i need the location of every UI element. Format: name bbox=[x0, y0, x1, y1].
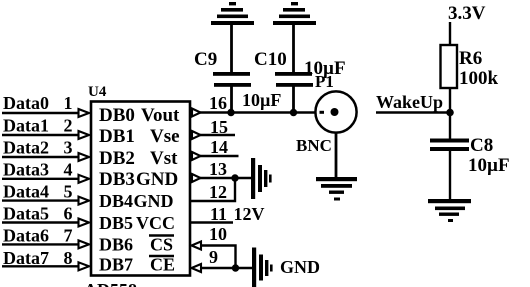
svg-text:8: 8 bbox=[64, 248, 73, 268]
svg-text:DB3: DB3 bbox=[99, 169, 135, 190]
svg-text:AD558: AD558 bbox=[84, 280, 137, 287]
wire U4 pin 11 VCC stub bbox=[191, 221, 233, 223]
svg-text:CS: CS bbox=[150, 235, 173, 255]
svg-text:Data4: Data4 bbox=[3, 182, 49, 202]
svg-text:100k: 100k bbox=[459, 68, 499, 89]
pin 15 output arrow bbox=[192, 131, 201, 139]
svg-text:3.3V: 3.3V bbox=[448, 3, 486, 24]
wire U4 pin 15 Vse stub bbox=[200, 134, 235, 137]
wire R6 to WakeUp node bbox=[449, 88, 451, 139]
ground symbol right of pins 13/12 (rotated) bbox=[251, 158, 272, 199]
svg-text:DB5: DB5 bbox=[99, 213, 133, 233]
svg-text:7: 7 bbox=[64, 226, 73, 246]
svg-text:Vst: Vst bbox=[150, 148, 178, 169]
svg-text:10: 10 bbox=[209, 224, 227, 244]
svg-text:Vse: Vse bbox=[150, 126, 180, 147]
svg-text:Data1: Data1 bbox=[3, 116, 49, 136]
junction dot WakeUp/R6/C8 bbox=[446, 109, 454, 117]
svg-text:WakeUp: WakeUp bbox=[376, 92, 443, 112]
wire Data4 to U4 pin 5 bbox=[2, 199, 80, 201]
svg-text:C9: C9 bbox=[194, 49, 217, 70]
BNC center pin dot bbox=[331, 108, 339, 116]
svg-text:2: 2 bbox=[64, 116, 73, 136]
svg-text:9: 9 bbox=[209, 247, 218, 267]
svg-text:C8: C8 bbox=[470, 135, 493, 156]
svg-text:12: 12 bbox=[209, 182, 227, 202]
svg-text:CE: CE bbox=[150, 255, 175, 275]
junction dot C10/Vout bbox=[290, 109, 297, 116]
wire C9 bottom to Vout net bbox=[230, 86, 233, 112]
wire Data6 to U4 pin 7 bbox=[2, 243, 80, 245]
capacitor C9 bbox=[213, 72, 251, 87]
ground symbol below BNC bbox=[316, 177, 357, 201]
svg-text:DB4: DB4 bbox=[99, 191, 133, 211]
svg-text:Data7: Data7 bbox=[3, 248, 49, 268]
pin 8 input arrow bbox=[79, 262, 90, 270]
pin 3 input arrow bbox=[79, 153, 90, 161]
pin 7 input arrow bbox=[79, 240, 90, 248]
wire WakeUp bbox=[376, 111, 450, 113]
wire Data1 to U4 pin 2 bbox=[2, 134, 80, 136]
svg-text:10µF: 10µF bbox=[242, 90, 281, 110]
wire ground to C10 top bbox=[292, 25, 295, 73]
capacitor C10 bbox=[275, 72, 313, 87]
wire U4 pin 10 CS to pin9 junction bbox=[201, 246, 236, 269]
svg-text:DB7: DB7 bbox=[99, 255, 133, 275]
pin 16 output arrow bbox=[192, 109, 201, 117]
wire ground to C9 top bbox=[230, 25, 233, 73]
wire Data5 to U4 pin 6 bbox=[2, 221, 80, 223]
svg-text:13: 13 bbox=[209, 159, 227, 179]
svg-text:16: 16 bbox=[209, 93, 227, 113]
junction dot pin13/pin12 bbox=[231, 174, 238, 181]
svg-text:14: 14 bbox=[210, 137, 228, 157]
pin 2 input arrow bbox=[79, 131, 90, 139]
wire U4 pin 14 Vst stub bbox=[200, 155, 239, 158]
junction dot C9/Vout bbox=[227, 109, 234, 116]
pin 9 input arrow bbox=[192, 264, 202, 272]
wire into BNC center bbox=[320, 111, 325, 114]
pin 13 output arrow bbox=[192, 174, 201, 182]
svg-text:GND: GND bbox=[136, 169, 178, 190]
wire BNC shield to ground bbox=[335, 132, 338, 178]
wire U4 pin 16 Vout to BNC bbox=[200, 111, 334, 113]
wire U4 pin 13 GND to ground bbox=[200, 177, 252, 179]
wire C8 to ground bbox=[449, 151, 451, 200]
svg-text:GND: GND bbox=[280, 257, 320, 277]
svg-text:Data0: Data0 bbox=[3, 93, 49, 113]
pin 5 input arrow bbox=[79, 197, 90, 205]
connector P1 BNC body bbox=[315, 91, 356, 132]
svg-text:10µF: 10µF bbox=[468, 155, 510, 176]
svg-text:Data5: Data5 bbox=[3, 204, 49, 224]
svg-text:DB2: DB2 bbox=[99, 148, 135, 169]
junction dot pin9/pin10 bbox=[232, 264, 239, 271]
pin 1 input arrow bbox=[79, 109, 90, 117]
svg-text:BNC: BNC bbox=[296, 136, 332, 155]
wire C10 bottom to Vout net bbox=[292, 86, 295, 112]
svg-text:11: 11 bbox=[210, 204, 227, 224]
svg-text:5: 5 bbox=[64, 182, 73, 202]
svg-text:DB1: DB1 bbox=[99, 126, 135, 147]
pin 10 input arrow bbox=[192, 242, 202, 250]
inverted ground symbol above C9 bbox=[211, 2, 254, 25]
inverted ground symbol above C10 bbox=[273, 2, 316, 25]
capacitor C8 bbox=[430, 139, 469, 152]
svg-text:Data3: Data3 bbox=[3, 160, 49, 180]
wire Data3 to U4 pin 4 bbox=[2, 178, 80, 180]
svg-text:U4: U4 bbox=[88, 84, 107, 100]
U4 pin name CS (active low) bbox=[149, 235, 174, 255]
pin 6 input arrow bbox=[79, 219, 90, 227]
svg-text:GND: GND bbox=[134, 191, 174, 211]
wire Data7 to U4 pin 8 bbox=[2, 265, 80, 267]
svg-text:P1: P1 bbox=[315, 72, 334, 91]
pin 4 input arrow bbox=[79, 175, 90, 183]
resistor R6 bbox=[441, 45, 458, 88]
svg-text:R6: R6 bbox=[459, 48, 482, 69]
ground symbol right of pins 10/9 (rotated) bbox=[252, 248, 273, 287]
svg-text:DB6: DB6 bbox=[99, 235, 133, 255]
svg-text:VCC: VCC bbox=[136, 213, 175, 233]
svg-text:12V: 12V bbox=[234, 204, 265, 224]
pin 14 output arrow bbox=[192, 152, 201, 160]
IC U4 AD558 body bbox=[91, 102, 190, 276]
svg-text:Data6: Data6 bbox=[3, 226, 49, 246]
wire U4 pin 12 GND to pin13 junction bbox=[191, 178, 235, 201]
ground symbol below C8 bbox=[428, 199, 471, 222]
svg-text:C10: C10 bbox=[254, 49, 287, 70]
wire 3.3V to R6 bbox=[449, 22, 451, 46]
U4 pin name CE (active low) bbox=[149, 255, 175, 275]
svg-text:Data2: Data2 bbox=[3, 138, 49, 158]
svg-text:4: 4 bbox=[64, 160, 73, 180]
svg-text:3: 3 bbox=[64, 138, 73, 158]
wire U4 pin 9 CE to ground bbox=[201, 267, 252, 269]
wire Data2 to U4 pin 3 bbox=[2, 156, 80, 158]
svg-text:DB0: DB0 bbox=[99, 105, 135, 126]
wire Data0 to U4 pin 1 bbox=[2, 112, 80, 114]
svg-text:6: 6 bbox=[64, 204, 73, 224]
svg-text:Vout: Vout bbox=[141, 105, 180, 126]
svg-text:1: 1 bbox=[64, 93, 73, 113]
